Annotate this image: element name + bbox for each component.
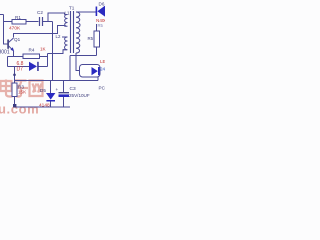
svg-text:LED: LED	[100, 59, 105, 64]
svg-text:C2: C2	[37, 10, 43, 15]
wire R4 right	[40, 56, 48, 58]
feedback winding L2	[62, 37, 68, 50]
svg-text:L2: L2	[56, 34, 61, 39]
wire secondary bottom row	[70, 55, 97, 57]
wire LED rect to mid rail	[97, 77, 99, 81]
resistor R5	[88, 23, 104, 47]
svg-text:8001: 8001	[0, 50, 10, 56]
watermark char 1	[1, 80, 13, 97]
resistor R1	[9, 15, 26, 32]
junction dot on R3 wire	[13, 74, 16, 77]
wire collector loop	[14, 26, 65, 38]
core	[71, 11, 74, 53]
wire up to top rail	[48, 13, 65, 22]
resistor R4	[23, 47, 47, 59]
capacitor C2	[37, 10, 43, 26]
watermark char 2	[14, 81, 29, 97]
wire emitter row	[8, 56, 24, 58]
svg-text:D5: D5	[40, 88, 46, 93]
svg-text:Q1: Q1	[14, 37, 21, 42]
svg-text:470K: 470K	[9, 26, 21, 32]
wire R5 bottom	[96, 47, 98, 56]
wire D3 cathode out	[39, 66, 48, 68]
svg-text:C3: C3	[70, 86, 76, 92]
wire D3 row	[8, 66, 30, 68]
wire D5 top	[50, 81, 52, 94]
wire LED feed	[76, 56, 80, 71]
wire R3 bottom	[14, 97, 16, 108]
svg-text:R1: R1	[15, 15, 21, 20]
wire emitter down	[13, 51, 15, 57]
wire mid rail	[15, 80, 99, 82]
LED module	[80, 59, 110, 91]
svg-text:R5: R5	[98, 23, 104, 28]
svg-text:D7: D7	[17, 66, 24, 72]
wire secondary winding bottom stub	[75, 53, 77, 56]
wire emitter drop	[7, 57, 9, 67]
svg-text:T1: T1	[69, 6, 75, 11]
resistor R3	[12, 83, 27, 97]
wire D5 bottom	[50, 101, 52, 107]
watermark char 3	[30, 81, 43, 97]
wire R5 top stub	[96, 24, 98, 31]
svg-text:u.com: u.com	[0, 102, 39, 117]
svg-text:25V/10UF: 25V/10UF	[69, 93, 90, 98]
wire R3 top	[14, 67, 16, 84]
wire C3 top	[63, 81, 65, 93]
svg-text:15K: 15K	[18, 90, 27, 95]
wire left input stub	[0, 14, 4, 16]
zener diode D7	[17, 61, 39, 72]
svg-text:+: +	[56, 87, 59, 92]
capacitor C3	[56, 86, 90, 98]
svg-text:4148: 4148	[39, 103, 50, 109]
wire bottom rail	[15, 106, 71, 108]
wire node B short vertical	[47, 54, 49, 67]
transformer T1	[56, 6, 81, 54]
transistor Q1	[0, 37, 21, 56]
svg-text:D6: D6	[99, 2, 105, 7]
svg-text:24: 24	[100, 67, 105, 72]
wire R1 to C2	[26, 21, 39, 23]
svg-text:R5: R5	[88, 36, 94, 41]
wire C2 output	[43, 21, 53, 23]
secondary winding	[76, 12, 80, 53]
wire secondary top to D6	[76, 11, 96, 13]
wire node B long vertical	[52, 22, 54, 81]
junction dot rail-R3	[13, 104, 16, 107]
svg-text:R4: R4	[29, 48, 35, 53]
wire C3 bottom	[63, 97, 65, 107]
svg-text:1K: 1K	[40, 47, 47, 52]
svg-text:PC: PC	[99, 86, 106, 91]
wire R1 left	[4, 21, 13, 23]
diode D5	[39, 88, 55, 109]
wire secondary return vertical	[69, 56, 71, 81]
wire feedback winding bottom	[48, 50, 68, 54]
primary winding L1	[65, 15, 68, 27]
wire base feed vertical	[4, 15, 8, 45]
diode D6	[96, 2, 110, 24]
